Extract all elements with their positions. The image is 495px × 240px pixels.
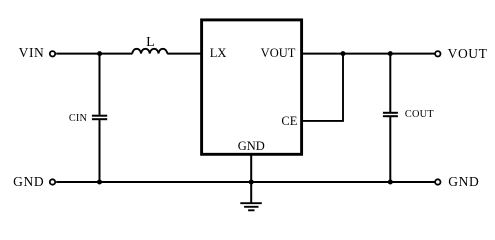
node GND-right terminal circle xyxy=(435,179,440,184)
junction dot IC-GND/ground xyxy=(249,180,254,185)
node GND-left terminal circle xyxy=(50,179,55,184)
capacitor CIN xyxy=(92,116,107,120)
svg-text:L: L xyxy=(146,35,155,50)
junction dot COUT tap xyxy=(388,51,393,56)
wire VOUT pin to VOUT terminal xyxy=(303,53,435,55)
svg-text:CE: CE xyxy=(281,114,297,128)
junction dot VIN/CIN node xyxy=(97,51,102,56)
svg-text:GND: GND xyxy=(13,174,44,189)
wire COUT upper lead xyxy=(389,54,391,112)
node VOUT terminal circle xyxy=(435,51,440,56)
node VIN terminal circle xyxy=(50,51,55,56)
wire VIN to inductor xyxy=(56,53,132,55)
svg-text:CIN: CIN xyxy=(69,113,88,124)
op-amp U1 IC body xyxy=(202,20,302,154)
wire CIN lower lead xyxy=(99,120,101,182)
wire inductor to LX pin xyxy=(167,53,202,55)
inductor L xyxy=(132,49,167,54)
wire CIN upper lead xyxy=(99,54,101,115)
junction dot CIN/ground xyxy=(97,180,102,185)
wire GND pin lead xyxy=(250,154,252,203)
wire COUT lower lead xyxy=(389,117,391,182)
svg-text:LX: LX xyxy=(210,46,227,60)
svg-text:VOUT: VOUT xyxy=(261,46,296,60)
svg-text:VOUT: VOUT xyxy=(448,46,488,61)
svg-text:GND: GND xyxy=(238,139,265,153)
junction dot COUT/ground xyxy=(388,180,393,185)
svg-text:COUT: COUT xyxy=(405,109,434,120)
wire CE feedback xyxy=(303,54,343,121)
svg-text:VIN: VIN xyxy=(19,45,45,60)
wire ground rail xyxy=(56,181,435,183)
junction dot CE tap xyxy=(341,51,346,56)
capacitor COUT xyxy=(383,113,398,116)
svg-text:GND: GND xyxy=(448,174,479,189)
ground xyxy=(240,203,261,210)
